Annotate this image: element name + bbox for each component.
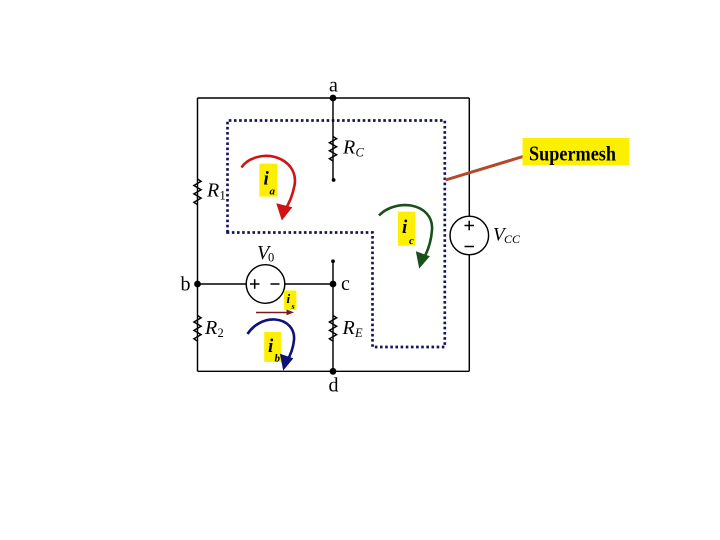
node d: [330, 368, 337, 375]
svg-text:i: i: [287, 291, 291, 306]
node a: [330, 95, 337, 102]
resistor RE: [329, 316, 336, 342]
svg-text:s: s: [291, 302, 295, 311]
wire left: [197, 98, 199, 371]
svg-text:c: c: [409, 235, 414, 247]
svg-text:CC: CC: [504, 232, 521, 246]
wire right: [468, 98, 470, 371]
svg-text:1: 1: [220, 189, 226, 203]
svg-text:R: R: [342, 317, 355, 339]
svg-text:i: i: [402, 217, 408, 238]
voltage source VCC: [450, 216, 489, 255]
mesh current ic label: [398, 212, 416, 246]
mesh current ib label: [264, 332, 281, 362]
supermesh dotted boundary: [228, 121, 445, 348]
svg-text:d: d: [329, 375, 339, 397]
svg-text:a: a: [270, 186, 276, 198]
svg-text:R: R: [206, 180, 219, 202]
resistor R1: [193, 179, 202, 205]
svg-text:a: a: [329, 75, 338, 97]
svg-text:i: i: [268, 336, 274, 357]
svg-text:c: c: [341, 273, 350, 295]
mesh current ic green arrow: [379, 205, 432, 267]
svg-text:R: R: [204, 317, 217, 339]
node b: [194, 281, 201, 288]
resistor RC: [329, 137, 336, 162]
supermesh label: [523, 138, 630, 165]
wire bottom: [198, 370, 470, 372]
node c: [330, 281, 337, 288]
svg-text:Supermesh: Supermesh: [529, 142, 616, 166]
wire a to RC stub: [332, 98, 334, 180]
mesh current ib navy arrow: [248, 319, 295, 369]
supermesh callout line: [446, 157, 524, 181]
svg-text:0: 0: [268, 251, 274, 265]
node: c stub top terminal: [331, 259, 335, 263]
resistor R2: [194, 316, 201, 342]
mesh current ia label: [259, 164, 277, 197]
voltage source V0: [246, 265, 285, 304]
svg-text:C: C: [356, 146, 365, 160]
branch current is arrow: [256, 310, 294, 316]
svg-text:b: b: [275, 353, 281, 365]
wire c stub up: [332, 262, 334, 285]
svg-text:b: b: [181, 274, 191, 296]
svg-text:E: E: [354, 326, 363, 340]
svg-text:2: 2: [218, 326, 224, 340]
wire b-c: [198, 283, 334, 285]
branch current is label: [284, 291, 296, 310]
mesh current ia red arrow: [242, 156, 295, 220]
svg-text:R: R: [342, 137, 355, 159]
node: RC bottom terminal: [332, 178, 336, 182]
wire top (a): [198, 97, 470, 99]
wire c to d: [332, 284, 334, 371]
